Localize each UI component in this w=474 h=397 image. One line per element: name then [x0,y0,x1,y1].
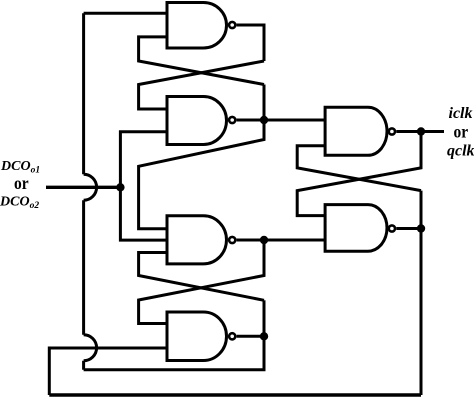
wire: cross diagonal U2.out to U1 lower input [139,37,264,85]
wire: U5 output to junction and out [396,130,444,133]
wire: DCO input line [46,186,120,189]
wire: left feedback rail from U4 output to U1 upper input (x=83.6, with hops) [84,13,97,369]
nand gate U1 [167,3,235,49]
wire: U4 lower input from bottom rail [49,348,167,395]
wire hop over DCO input line [84,174,97,200]
wire: U6 output vertical up to cross and down to bottom rail [420,191,423,395]
node: U2 output junction [260,116,268,124]
node: U6 output junction [417,224,425,232]
wire: U1 output to cross corner [237,25,264,61]
svg-text:qclk: qclk [447,143,474,160]
wire: cross diagonal U5.out to U6 upper input [297,132,421,216]
wire: U2 output vertical up to cross [263,85,266,121]
nand gate U2 [167,97,235,145]
wire: cross diagonal U3.out to U4 upper input [139,240,264,324]
wire: U4 output stub [237,335,264,338]
wire: U4 output up to cross corner [263,300,266,336]
wire: U4 output feedback down and left to left rail [84,336,264,369]
nand gate U3 [167,216,235,264]
svg-text:DCOo2: DCOo2 [0,195,39,212]
wire: bottom rail from U6 output [49,393,421,396]
node: DCO input junction [116,183,124,191]
wire: U6 output stub [396,227,421,230]
node: U3 output junction [260,236,268,244]
svg-text:or: or [454,121,469,141]
wire: U3 output line to U6 lower input [237,239,326,242]
wire hop over U4 lower input line [84,335,97,361]
wire: U2 output line to U5 upper input [237,119,326,122]
nand gate U6 [325,205,395,252]
nand gate U5 [325,107,395,155]
svg-text:iclk: iclk [449,105,473,122]
wire: input junction up to U2 lower input [120,132,167,188]
node: U5 output junction [417,127,425,135]
wire: cross diagonal U4.out to U3 lower input [139,253,264,301]
wire: cross diagonal U6.out to U5 lower input [297,146,421,191]
wire: cross diagonal U1.out to U2 upper input [139,61,264,109]
nand gate U4 [167,312,235,361]
svg-text:or: or [14,173,29,193]
wire: input junction down to U3 middle input [120,187,167,240]
wire: U1 upper input [84,12,167,15]
wire: U2 output down, diagonal to U3 upper input [139,120,264,229]
node: U4 output junction [260,332,268,340]
